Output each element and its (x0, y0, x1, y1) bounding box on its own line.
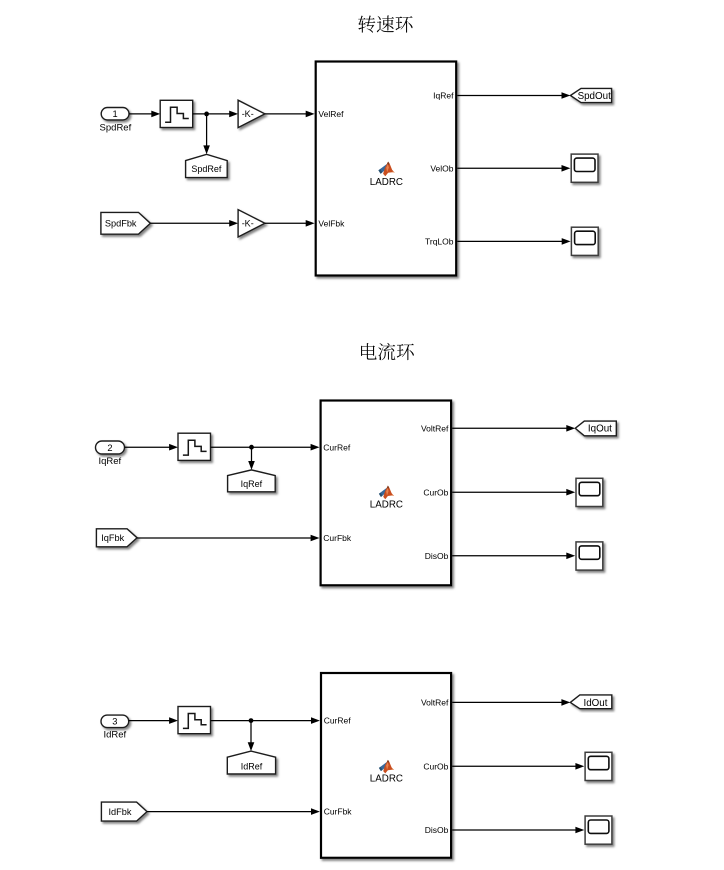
arrowhead (169, 444, 178, 451)
signal builder block (SpdRef profile) (160, 100, 193, 127)
arrowhead down (248, 742, 255, 751)
arrowhead (311, 808, 320, 815)
arrowhead (566, 553, 575, 560)
svg-text:LADRC: LADRC (370, 499, 403, 510)
arrowhead (562, 238, 571, 245)
svg-text:IdFbk: IdFbk (109, 807, 132, 817)
svg-text:SpdOut: SpdOut (578, 91, 612, 102)
wire IqRef out (457, 95, 562, 97)
wire IqFbk to CurFbk (137, 537, 312, 539)
arrowhead (306, 220, 315, 227)
branch wire down (250, 721, 252, 744)
wire VoltRef out (452, 427, 567, 429)
svg-text:IqRef: IqRef (433, 91, 454, 101)
branch wire down (251, 447, 253, 462)
wire to gain (193, 113, 231, 115)
wire IdFbk to CurFbk (147, 811, 312, 813)
svg-text:SpdFbk: SpdFbk (105, 219, 137, 229)
arrowhead down (248, 461, 255, 470)
scope (DisOb d) (585, 816, 612, 844)
svg-text:IqFbk: IqFbk (101, 533, 124, 543)
inport 1 (101, 108, 129, 121)
svg-text:1: 1 (113, 109, 118, 119)
inport 2 (96, 441, 125, 454)
svg-text:2: 2 (107, 443, 112, 453)
svg-text:CurRef: CurRef (324, 716, 352, 726)
wire (129, 720, 171, 722)
title 电流环 (current loop) (361, 343, 414, 360)
arrowhead (575, 763, 584, 770)
svg-text:SpdRef: SpdRef (191, 164, 222, 174)
goto tag IqOut (575, 421, 616, 436)
LADRC subsystem (q current) (321, 401, 452, 586)
arrowhead (229, 111, 238, 118)
wire VoltRef out (452, 701, 562, 703)
wire (129, 113, 153, 115)
wire gain to VelFbk (265, 222, 307, 224)
svg-text:CurRef: CurRef (323, 442, 351, 452)
svg-text:IqOut: IqOut (588, 424, 612, 435)
svg-text:VelOb: VelOb (430, 163, 453, 173)
arrowhead (151, 111, 160, 118)
svg-text:CurFbk: CurFbk (323, 533, 352, 543)
svg-text:IdRef: IdRef (241, 762, 263, 772)
junction (249, 445, 254, 450)
svg-text:IdRef: IdRef (103, 730, 126, 741)
svg-text:CurOb: CurOb (423, 487, 448, 497)
scope (TrqLOb) (571, 227, 598, 255)
svg-text:TrqLOb: TrqLOb (425, 237, 454, 247)
from tag IqFbk (96, 529, 137, 547)
wire (125, 446, 171, 448)
goto tag SpdRef (186, 154, 228, 177)
title 转速环 (speed loop) (358, 15, 412, 32)
svg-text:IdOut: IdOut (584, 698, 608, 709)
svg-text:DisOb: DisOb (425, 551, 449, 561)
MATLAB logo (379, 760, 394, 774)
from tag IdFbk (101, 802, 147, 821)
signal builder block (IdRef profile) (178, 707, 211, 734)
wire DisOb to scope (452, 555, 567, 557)
wire CurOb to scope (452, 765, 577, 767)
goto tag IdOut (570, 695, 612, 709)
svg-text:-K-: -K- (242, 219, 254, 229)
from tag SpdFbk (101, 212, 150, 234)
LADRC subsystem (speed) (316, 62, 457, 276)
arrowhead (306, 111, 315, 118)
arrowhead down (203, 145, 210, 154)
arrowhead (562, 165, 571, 172)
wire SpdFbk to gain (150, 222, 230, 224)
svg-text:IqRef: IqRef (241, 479, 263, 489)
arrowhead (169, 717, 178, 724)
junction (204, 112, 209, 117)
inport 3 (101, 715, 129, 728)
svg-text:CurOb: CurOb (423, 761, 448, 771)
svg-text:SpdRef: SpdRef (100, 123, 132, 134)
scope (VelOb) (571, 154, 598, 182)
scope (CurOb q) (576, 478, 603, 506)
arrowhead (311, 444, 320, 451)
gain -K- (speed fbk scaling) (238, 210, 265, 237)
arrowhead (566, 425, 575, 432)
wire to CurRef (211, 446, 313, 448)
arrowhead (562, 92, 571, 99)
LADRC subsystem (d current) (321, 673, 451, 858)
svg-text:VelFbk: VelFbk (318, 218, 345, 228)
wire TrqLOb to scope (457, 240, 563, 242)
svg-text:DisOb: DisOb (425, 825, 449, 835)
svg-text:VoltRef: VoltRef (421, 423, 449, 433)
goto tag IqRef (228, 470, 276, 492)
svg-text:CurFbk: CurFbk (324, 807, 353, 817)
wire to CurRef (211, 720, 313, 722)
svg-text:LADRC: LADRC (370, 177, 403, 188)
svg-text:IqRef: IqRef (98, 456, 121, 467)
svg-text:LADRC: LADRC (370, 774, 403, 785)
svg-text:-K-: -K- (242, 109, 254, 119)
arrowhead (561, 699, 570, 706)
scope (CurOb d) (585, 752, 612, 780)
goto tag SpdOut (570, 88, 611, 102)
arrowhead (311, 535, 320, 542)
scope (DisOb q) (576, 542, 603, 570)
junction (249, 718, 254, 723)
arrowhead (566, 489, 575, 496)
svg-text:3: 3 (112, 717, 117, 727)
arrowhead (311, 717, 320, 724)
branch wire down (206, 114, 208, 147)
wire VelOb to scope (457, 167, 563, 169)
wire gain to VelRef (265, 113, 307, 115)
goto tag IdRef (227, 751, 275, 774)
svg-text:VelRef: VelRef (318, 109, 344, 119)
wire CurOb to scope (452, 491, 567, 493)
signal builder block (IqRef profile) (178, 433, 211, 460)
MATLAB logo (378, 162, 394, 177)
arrowhead (575, 827, 584, 834)
MATLAB logo (379, 486, 394, 500)
gain -K- (speed ref scaling) (238, 100, 265, 127)
wire DisOb to scope (452, 829, 577, 831)
svg-text:VoltRef: VoltRef (421, 698, 449, 708)
arrowhead (229, 220, 238, 227)
